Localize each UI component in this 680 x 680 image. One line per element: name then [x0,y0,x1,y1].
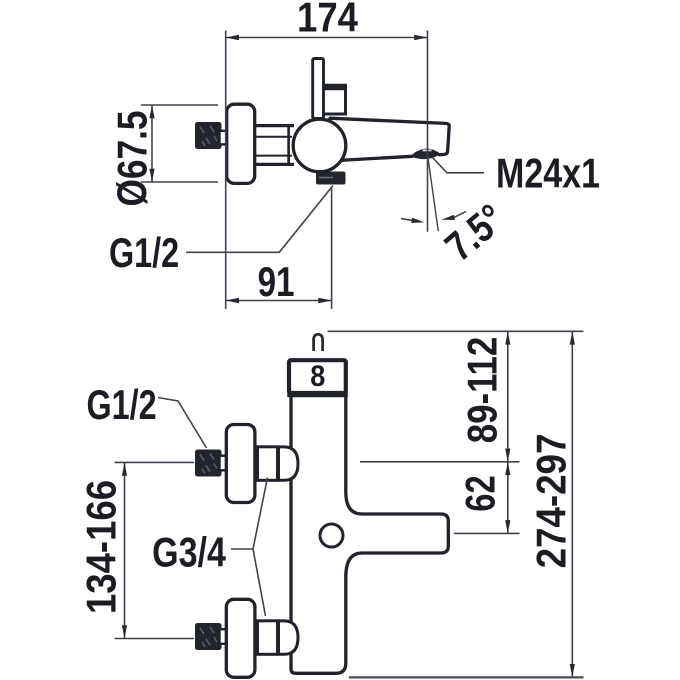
dimension 134-166 : dim line with arrows [122,462,127,638]
spout (side view) [311,118,449,172]
label M24x1 leader [433,158,485,173]
angle 7.5° : left arrow segment [401,218,425,223]
body top cap [289,360,346,393]
lower inlet: threaded nipple (dark) [195,623,222,650]
svg-text:274-297: 274-297 [528,434,575,569]
handle lever [313,59,324,119]
lower inlet: stub [220,629,228,644]
svg-text:134-166: 134-166 [78,480,125,614]
svg-text:G1/2: G1/2 [86,381,156,428]
dimension 62 : dim line with arrows [505,462,510,534]
label G3/4 leader (two branches) [231,478,268,617]
dimension Ø67.5 : extension lines [141,105,218,182]
upper inlet: stub [220,456,228,471]
connecting pipe escutcheon to body [255,126,294,165]
dimension 174 : right extension line (also 7.5° reference) [427,31,429,232]
dimension 174 : dim line [226,35,428,40]
aerator bump (dark lens on spout underside) [411,150,439,159]
svg-text:8: 8 [310,360,325,394]
mixer body front outline with spout arm [291,394,448,673]
svg-text:Ø67.5: Ø67.5 [110,110,157,206]
svg-text:174: 174 [297,0,358,41]
lower inlet: G3/4 union cylinder [258,621,278,655]
dimension 89-112 : dim line with arrows [505,331,510,462]
lower inlet: escutcheon [226,599,255,677]
threaded inlet nipple G1/2 (side view, dark) [195,122,222,149]
svg-text:G3/4: G3/4 [152,529,226,576]
shower hose hook (inverted U) [314,334,323,351]
upper inlet: union dome nut [279,447,299,480]
dimension 274-297 : dim line with arrows [570,331,575,677]
divider line under cap [287,392,348,397]
label G1/2 (side view) leader [186,186,333,253]
bottom reference line [349,676,584,678]
mixer body (circle) [293,119,346,172]
svg-text:89-112: 89-112 [460,337,507,444]
outlet piece under body (dark) [316,172,346,185]
handle base block [321,86,346,114]
mid reference line (upper inlet centreline, right side) [360,461,520,463]
svg-text:91: 91 [258,259,295,306]
upper inlet: threaded nipple (dark) [195,450,222,477]
handle base top bar (thick) [319,84,347,90]
dimension Ø67.5 : dim line with arrows [149,105,154,182]
dimension 91 : dim line with arrows [226,298,332,303]
svg-text:G1/2: G1/2 [109,229,179,276]
wall escutcheon (side view) [227,104,255,183]
upper inlet: escutcheon [226,425,255,503]
svg-text:62: 62 [457,475,504,511]
dimension 174 : left extension line [225,31,227,310]
left extension lines for 134-166 [115,462,195,638]
upper inlet: G3/4 union cylinder [258,447,278,481]
angle 7.5° : tilted line [428,157,439,232]
svg-text:M24x1: M24x1 [496,150,600,197]
label G1/2 (front view) leader [158,398,207,449]
lower inlet: union dome nut [279,621,299,654]
angle 7.5° : right arrow segment [442,211,467,220]
screw circle on arm [320,524,343,547]
nipple stub between nipple and escutcheon [220,131,228,145]
dimension 91 : right extension line [331,188,333,310]
top reference line [328,330,584,332]
arm centreline extension (right side) [454,532,520,534]
